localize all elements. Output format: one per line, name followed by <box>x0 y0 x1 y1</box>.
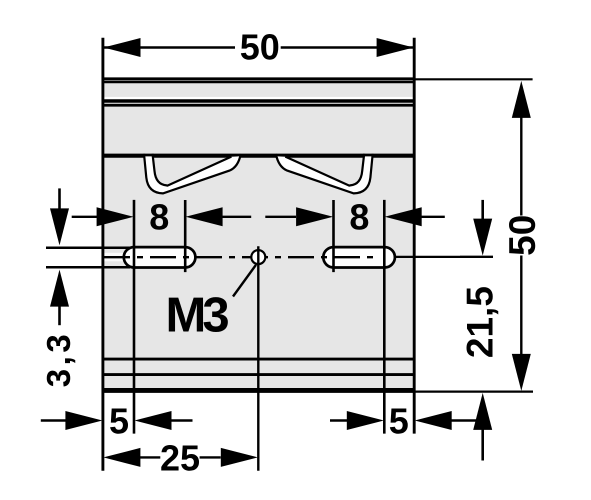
dim 8 right: line and arrows <box>265 216 445 218</box>
body horizontal profile lines <box>102 79 415 392</box>
din clip left <box>144 154 241 194</box>
dim 50 top: line <box>103 46 414 48</box>
svg-text:8: 8 <box>349 197 369 238</box>
svg-text:5: 5 <box>389 401 409 442</box>
centerline dash-dot <box>104 256 377 258</box>
dim 8 right: ticks <box>332 200 335 272</box>
dim 50 top: right arrow <box>377 38 414 57</box>
dim 3,3: top arrow <box>58 188 61 212</box>
M3 leader <box>233 265 256 297</box>
dim 8 left: line and arrows <box>72 216 252 218</box>
dim 50 top: left arrow <box>104 38 141 57</box>
svg-text:M3: M3 <box>166 289 229 343</box>
right edge + top ext + bottom ext to 5-dim <box>413 38 416 434</box>
dim 21,5: text (rotated) <box>460 286 501 358</box>
dim 3,3: bottom arrow <box>50 270 69 307</box>
dim 8 left: ticks <box>133 200 136 434</box>
body vertical edges with extensions <box>103 38 414 471</box>
M3 hole <box>251 250 265 264</box>
svg-text:50: 50 <box>240 27 280 68</box>
dim 3,3: text (rotated) <box>40 331 77 387</box>
svg-text:5: 5 <box>109 401 129 442</box>
dim 5 left: line and arrows <box>41 419 67 421</box>
white groove strip upper <box>104 97 413 100</box>
centerline right extension solid <box>394 256 493 258</box>
3,3 extension lines <box>46 248 130 267</box>
body plate fill <box>103 78 414 393</box>
step line <box>102 154 415 158</box>
svg-text:21,5: 21,5 <box>460 286 501 358</box>
dim 25: line and arrows <box>103 448 140 467</box>
dim 21,5: CL tick <box>460 256 493 258</box>
white channel left of slot <box>104 253 126 261</box>
dim 21,5: top arrow <box>481 200 484 222</box>
slot left (stadium) <box>124 247 196 267</box>
white groove strip lower <box>104 103 413 105</box>
svg-text:8: 8 <box>149 197 169 238</box>
dim 21,5: bottom arrow <box>473 393 492 430</box>
dim 50 right: text (rotated) <box>502 215 543 256</box>
din clip right <box>276 154 373 194</box>
M3 vertical centerline / 25-dim extension <box>257 246 259 471</box>
svg-text:3,3: 3,3 <box>40 331 77 387</box>
left edge + top ext + bottom ext to 25-dim <box>101 38 104 471</box>
dim 50 right: top ext line <box>416 78 533 80</box>
slot right (stadium) <box>323 247 395 267</box>
dim 50 right: line <box>520 115 522 355</box>
svg-text:25: 25 <box>160 437 200 478</box>
dim 50 right: bottom ext line <box>416 391 534 393</box>
dim 5 right: line and arrows <box>330 419 349 421</box>
svg-text:50: 50 <box>502 215 543 256</box>
